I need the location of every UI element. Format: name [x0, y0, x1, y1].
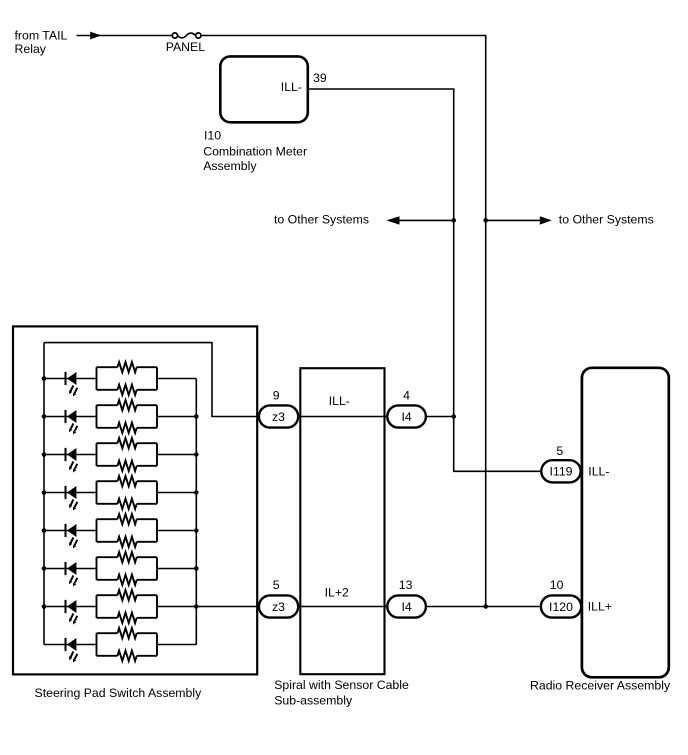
- svg-text:Radio Receiver Assembly: Radio Receiver Assembly: [530, 678, 671, 692]
- svg-text:z3: z3: [272, 410, 285, 424]
- svg-text:Assembly: Assembly: [203, 159, 257, 173]
- svg-text:I119: I119: [549, 465, 572, 479]
- svg-text:IL+2: IL+2: [325, 585, 349, 599]
- svg-text:to Other Systems: to Other Systems: [274, 212, 369, 226]
- svg-text:PANEL: PANEL: [166, 40, 206, 54]
- svg-text:I10: I10: [204, 128, 221, 142]
- svg-text:Combination Meter: Combination Meter: [203, 145, 307, 159]
- svg-text:from TAIL: from TAIL: [15, 28, 68, 42]
- svg-text:I120: I120: [549, 600, 573, 614]
- svg-text:Spiral with Sensor Cable: Spiral with Sensor Cable: [274, 678, 409, 692]
- svg-text:5: 5: [556, 444, 563, 458]
- svg-text:I4: I4: [401, 600, 411, 614]
- svg-text:5: 5: [273, 578, 280, 592]
- svg-text:Relay: Relay: [15, 42, 47, 56]
- svg-text:Steering Pad Switch Assembly: Steering Pad Switch Assembly: [35, 686, 203, 700]
- svg-text:39: 39: [313, 71, 327, 85]
- svg-text:4: 4: [403, 388, 410, 402]
- svg-text:ILL-: ILL-: [588, 464, 609, 478]
- svg-text:to Other Systems: to Other Systems: [559, 212, 654, 226]
- svg-text:ILL+: ILL+: [588, 600, 612, 614]
- svg-text:10: 10: [550, 578, 564, 592]
- svg-text:13: 13: [399, 578, 413, 592]
- svg-text:z3: z3: [272, 600, 285, 614]
- svg-text:Sub-assembly: Sub-assembly: [274, 694, 353, 708]
- svg-text:ILL-: ILL-: [329, 394, 350, 408]
- svg-text:9: 9: [273, 388, 280, 402]
- svg-text:I4: I4: [401, 410, 411, 424]
- svg-text:ILL-: ILL-: [281, 80, 302, 94]
